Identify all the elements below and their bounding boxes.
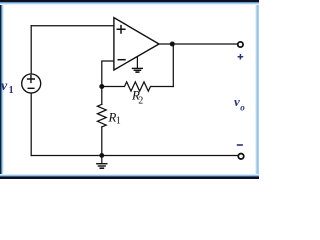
node: feedback/R2 junction — [99, 84, 104, 89]
wire right vertical (output to R2) — [172, 44, 174, 87]
svg-text:v: v — [1, 79, 8, 94]
voltage source v1 — [22, 74, 41, 93]
border frame top — [0, 0, 259, 5]
wire top (+ input from source) — [31, 25, 114, 27]
svg-text:1: 1 — [9, 85, 14, 96]
wire left upper — [30, 26, 32, 74]
ground (op-amp reference) — [136, 57, 138, 68]
wire R1 to bottom — [101, 127, 103, 156]
svg-text:2: 2 — [138, 95, 143, 106]
resistor R1 — [97, 104, 106, 127]
svg-text:v: v — [234, 94, 240, 109]
op-amp + input mark — [117, 26, 125, 33]
wire feedback (- input down to R1) — [102, 61, 114, 104]
resistor R2 — [102, 82, 174, 91]
ground (bottom, under R1 node) — [101, 156, 103, 164]
border frame bottom — [0, 174, 259, 179]
wire output (apex to terminal) — [159, 43, 238, 45]
border frame right — [255, 0, 259, 179]
node: output junction — [170, 42, 175, 47]
op-amp U1 triangle — [114, 18, 159, 70]
svg-text:1: 1 — [116, 116, 121, 127]
border frame left — [0, 0, 4, 179]
polarity + (blue, under top terminal) — [238, 54, 244, 60]
polarity - (blue, above bottom terminal) — [237, 144, 243, 146]
terminal bottom (output -) — [238, 154, 244, 160]
op-amp - input mark — [118, 59, 125, 61]
svg-text:o: o — [240, 102, 245, 112]
wire left lower — [30, 93, 32, 155]
node: bottom ground junction — [99, 153, 104, 158]
wire bottom — [31, 155, 238, 157]
terminal top (output +) — [238, 42, 243, 47]
